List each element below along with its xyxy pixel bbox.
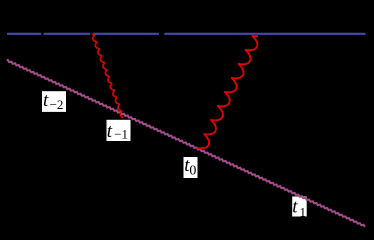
boundary line (blue) segment 1 (7, 33, 41, 35)
svg-text:−1: −1 (114, 127, 128, 142)
svg-text:t: t (43, 90, 49, 111)
brane trajectory (magenta diagonal) (7, 60, 365, 227)
svg-text:0: 0 (189, 164, 196, 179)
svg-text:1: 1 (300, 204, 307, 219)
dark notch on boundary line at photon emission point (90, 33, 93, 36)
label t_0 (184, 155, 198, 179)
label t_-1 (107, 120, 131, 142)
svg-text:t: t (107, 121, 113, 142)
boundary line (blue) segment 3 (164, 33, 365, 35)
photon squiggle left (93, 34, 123, 117)
svg-text:−2: −2 (50, 97, 64, 112)
photon squiggle right (197, 36, 257, 148)
svg-text:t: t (292, 197, 298, 218)
label t_1 (292, 197, 307, 220)
boundary line (blue) segment 2 (44, 33, 159, 35)
label t_-2 (42, 90, 66, 112)
